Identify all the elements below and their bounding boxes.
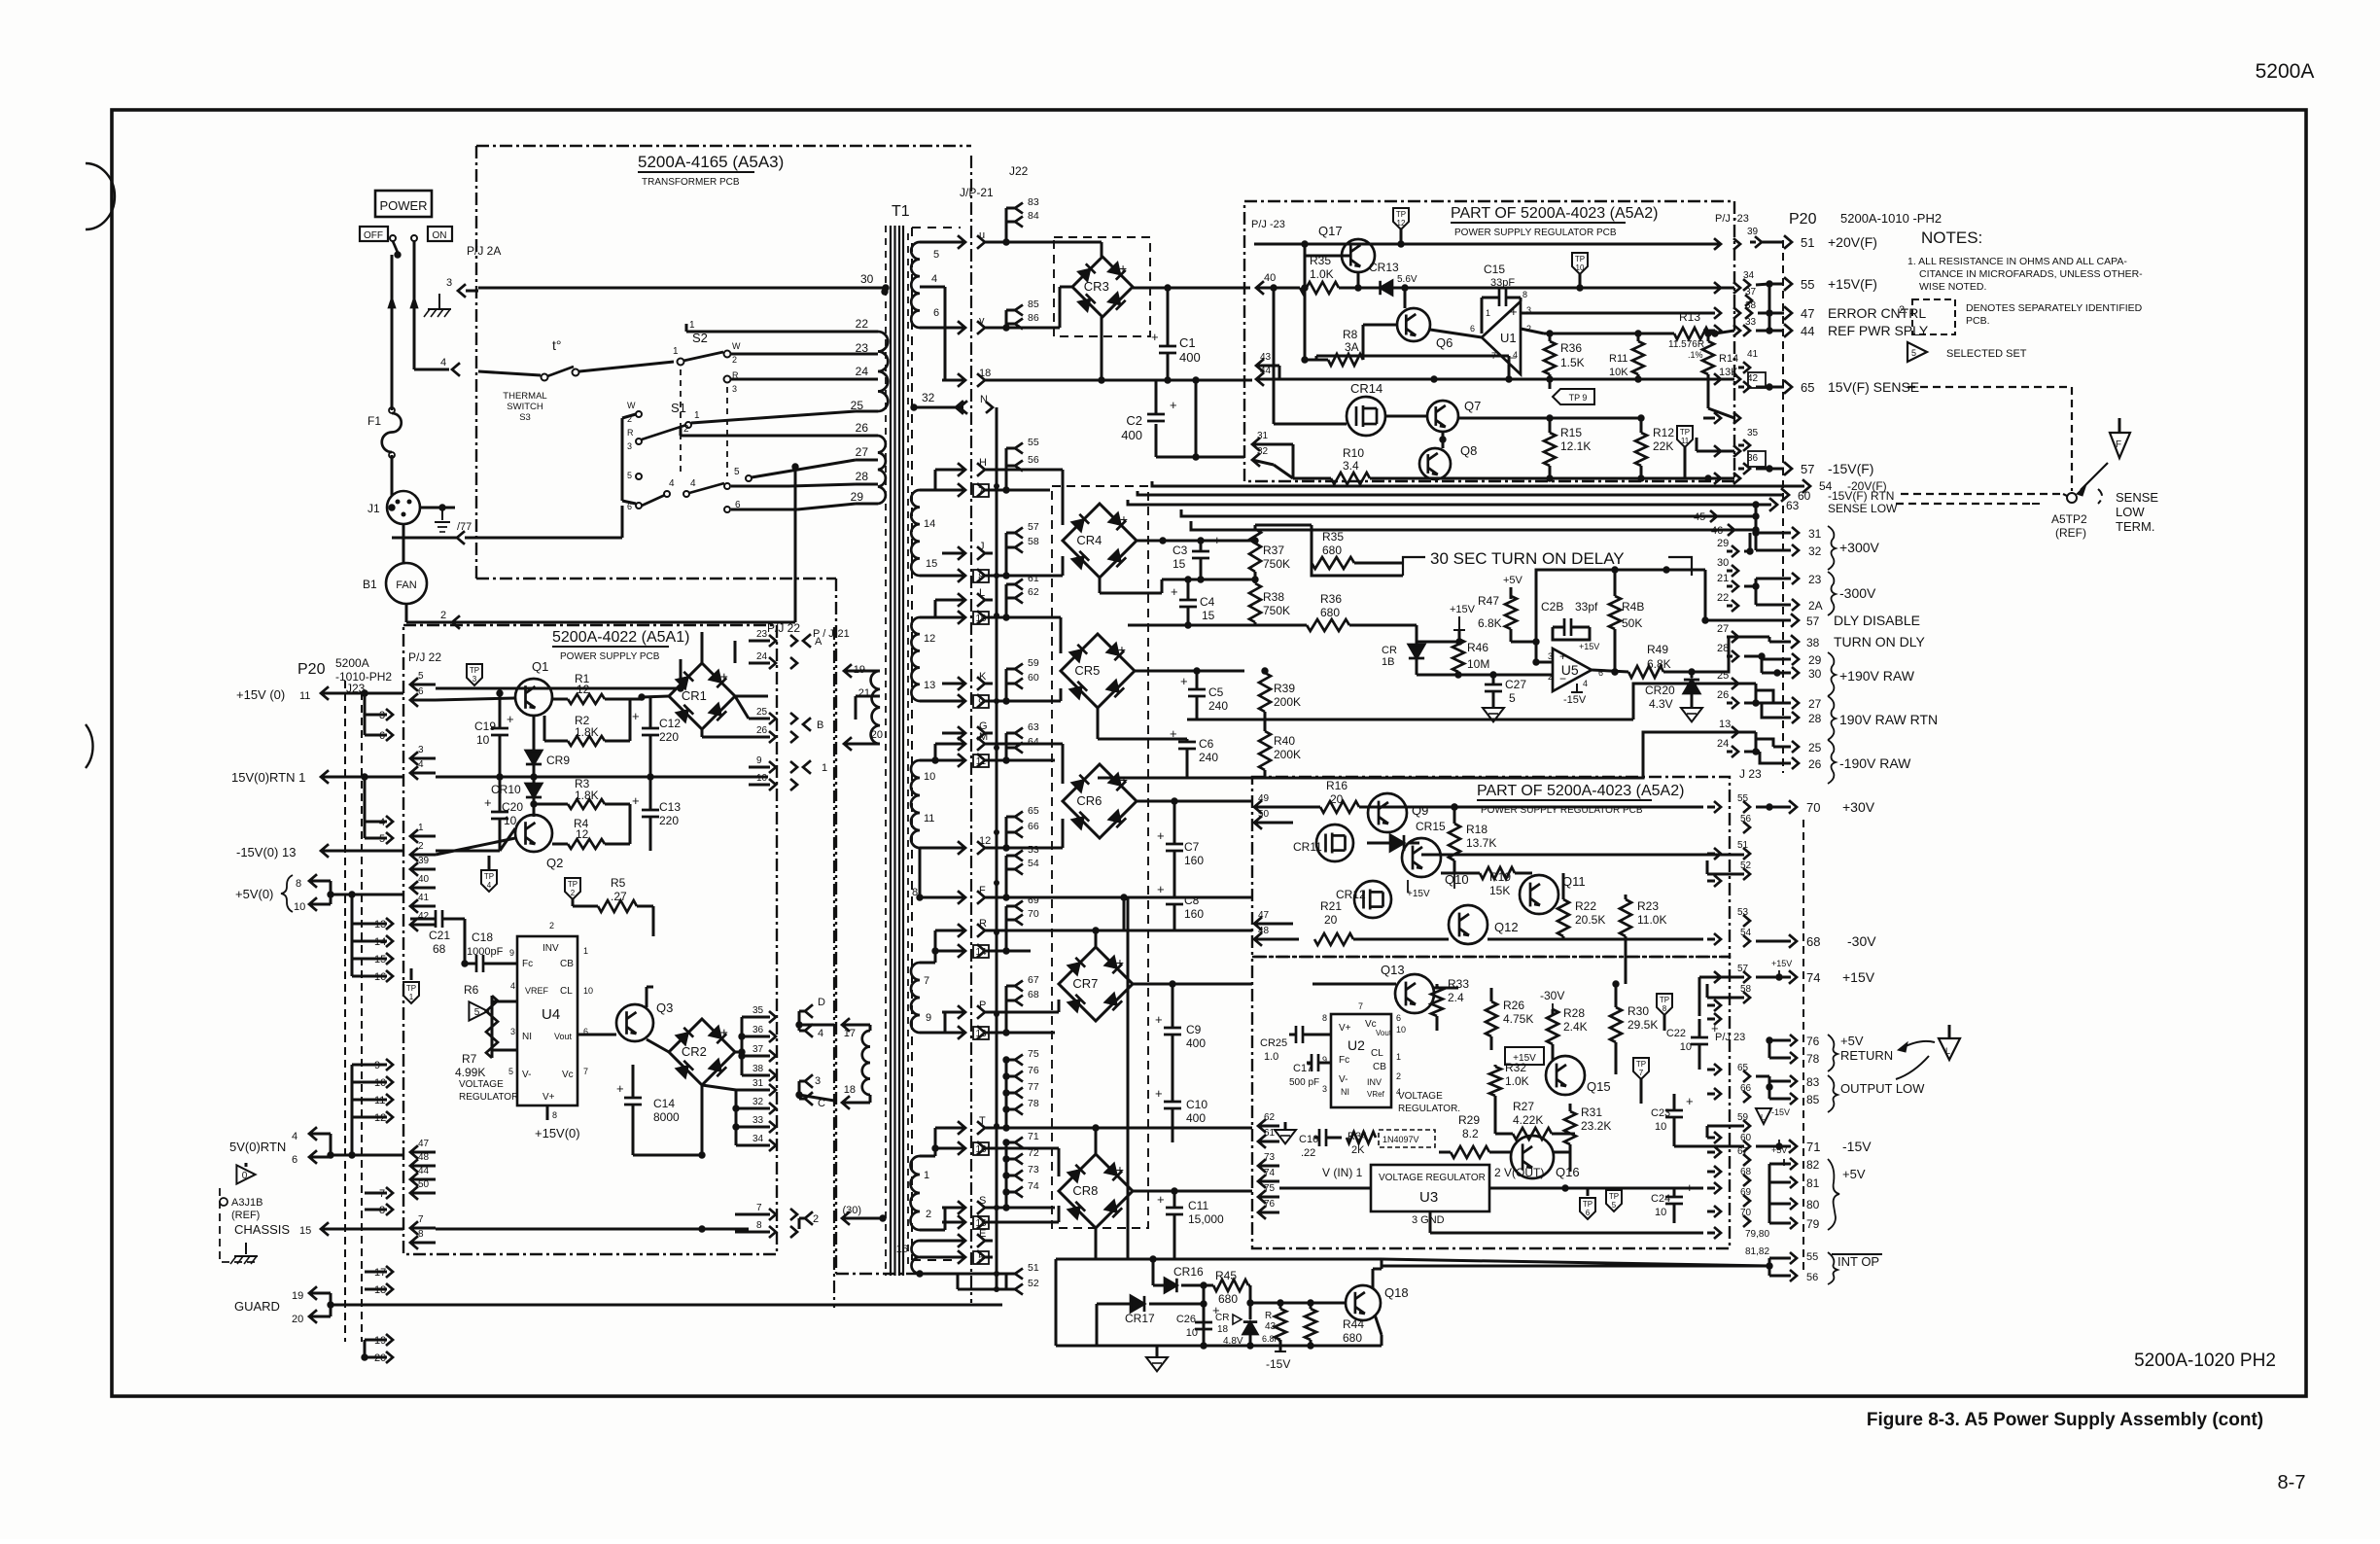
svg-text:73: 73 — [1028, 1164, 1039, 1176]
svg-text:85: 85 — [1806, 1093, 1820, 1106]
svg-text:+: + — [1118, 642, 1126, 657]
svg-text:26: 26 — [756, 725, 768, 736]
svg-text:Figure 8-3. A5 Power Supply As: Figure 8-3. A5 Power Supply Assembly (co… — [1867, 1410, 2263, 1430]
svg-text:U3: U3 — [1419, 1189, 1438, 1206]
svg-text:R29: R29 — [1458, 1113, 1480, 1127]
svg-text:R8: R8 — [1343, 328, 1358, 341]
svg-text:51: 51 — [1028, 1262, 1039, 1274]
svg-text:40: 40 — [418, 874, 430, 885]
bundle stair wires — [1152, 481, 1176, 486]
wire on-pole to connector 4 — [414, 368, 449, 371]
arrow up off wire — [388, 297, 396, 308]
svg-text:F1: F1 — [367, 414, 381, 428]
svg-text:+15V: +15V — [1771, 959, 1792, 968]
connector N — [942, 406, 963, 409]
capacitor C10 — [1164, 1101, 1181, 1104]
wire node column — [1203, 1285, 1206, 1346]
connector 9 — [942, 700, 963, 703]
svg-text:L: L — [979, 587, 985, 599]
svg-text:84: 84 — [1028, 210, 1039, 222]
svg-text:R: R — [1265, 1311, 1272, 1321]
U2 regulator box — [1331, 1014, 1391, 1107]
wire to tap 28 — [731, 485, 789, 488]
svg-text:Vout: Vout — [1376, 1029, 1392, 1037]
capacitor C23 — [1665, 1109, 1683, 1112]
svg-text:30: 30 — [1808, 667, 1822, 681]
svg-text:NI: NI — [1341, 1087, 1349, 1097]
svg-text:47: 47 — [418, 1139, 430, 1149]
bridge CR7 — [1059, 947, 1133, 1021]
svg-text:11: 11 — [976, 756, 987, 767]
svg-text:9: 9 — [926, 1012, 931, 1024]
U4 voltage regulator box — [517, 936, 577, 1105]
svg-text:+: + — [1120, 511, 1128, 527]
diode CR10 — [526, 784, 542, 797]
svg-text:4.75K: 4.75K — [1503, 1012, 1533, 1026]
svg-text:2: 2 — [440, 610, 446, 621]
TP7 testpoint — [1633, 1058, 1649, 1079]
ground symbol near connector 3 — [438, 294, 440, 309]
svg-text:4: 4 — [1583, 679, 1588, 688]
svg-text:SENSE LOW: SENSE LOW — [1828, 502, 1898, 515]
svg-text:8.2: 8.2 — [1462, 1127, 1479, 1140]
svg-text:3: 3 — [1322, 1084, 1327, 1094]
svg-text:+5V: +5V — [1771, 1145, 1787, 1155]
svg-text:THERMAL: THERMAL — [503, 391, 546, 402]
svg-text:3: 3 — [1548, 651, 1553, 661]
svg-text:83: 83 — [1806, 1075, 1820, 1089]
svg-text:+: + — [1116, 1162, 1124, 1177]
svg-text:13.7K: 13.7K — [1466, 836, 1496, 850]
svg-text:DLY DISABLE: DLY DISABLE — [1834, 613, 1920, 628]
svg-text:D: D — [818, 997, 825, 1008]
mech link dashes S1-S2 — [680, 369, 682, 476]
svg-text:11.576R: 11.576R — [1668, 339, 1704, 350]
svg-text:Q15: Q15 — [1587, 1079, 1611, 1094]
svg-text:8000: 8000 — [653, 1110, 680, 1124]
svg-text:79,80: 79,80 — [1745, 1229, 1769, 1240]
output 63 SENSE LOW — [1769, 498, 1777, 511]
svg-text:9: 9 — [978, 697, 984, 708]
svg-text:3: 3 — [627, 441, 632, 451]
svg-text:13: 13 — [924, 680, 935, 691]
svg-text:11: 11 — [299, 690, 310, 702]
svg-text:27: 27 — [1717, 623, 1729, 635]
svg-text:6: 6 — [292, 1154, 297, 1166]
svg-text:R36: R36 — [1320, 592, 1342, 606]
svg-text:3: 3 — [446, 277, 452, 289]
svg-text:53: 53 — [1028, 844, 1039, 856]
svg-text:1: 1 — [583, 946, 588, 956]
svg-text:V-: V- — [522, 1070, 531, 1080]
svg-text:C26: C26 — [1176, 1314, 1196, 1325]
svg-text:+: + — [1171, 584, 1178, 599]
svg-text:CR15: CR15 — [1416, 820, 1446, 833]
transistor Q3 — [616, 1004, 653, 1041]
wire DLY to edge — [1705, 619, 1713, 622]
svg-text:CR10: CR10 — [491, 783, 521, 796]
svg-text:B: B — [817, 719, 823, 731]
svg-text:4: 4 — [669, 478, 675, 489]
svg-text:14: 14 — [924, 518, 935, 530]
TP9 testpoint — [1553, 389, 1594, 404]
svg-text:V-: V- — [1339, 1074, 1347, 1085]
svg-text:-15V: -15V — [1563, 694, 1587, 706]
svg-text:8: 8 — [296, 878, 301, 890]
capacitor C6 — [1178, 741, 1196, 744]
svg-text:27: 27 — [856, 445, 869, 459]
svg-text:12.1K: 12.1K — [1560, 439, 1591, 453]
svg-text:12: 12 — [577, 683, 590, 696]
svg-text:1: 1 — [1396, 1052, 1401, 1062]
svg-text:1: 1 — [409, 993, 414, 1001]
svg-text:CR8: CR8 — [1072, 1183, 1098, 1198]
svg-text:23.2K: 23.2K — [1581, 1119, 1611, 1133]
svg-text:CR14: CR14 — [1350, 381, 1382, 396]
svg-text:GUARD: GUARD — [234, 1299, 280, 1314]
svg-text:2: 2 — [418, 841, 424, 852]
svg-text:+300V: +300V — [1839, 540, 1880, 555]
svg-text:8: 8 — [1662, 1004, 1667, 1013]
svg-text:TP: TP — [568, 880, 577, 889]
svg-text:R15: R15 — [1560, 426, 1582, 439]
wire int op to outputs — [1382, 1259, 1769, 1266]
svg-text:(REF): (REF) — [231, 1210, 260, 1221]
svg-text:50K: 50K — [1622, 616, 1642, 630]
svg-text:33pF: 33pF — [1490, 277, 1515, 289]
svg-text:5.6V: 5.6V — [1397, 274, 1417, 285]
svg-text:32: 32 — [1808, 544, 1822, 558]
svg-text:C7: C7 — [1184, 840, 1200, 854]
svg-text:+: + — [1155, 1086, 1163, 1101]
svg-text:R: R — [627, 428, 634, 438]
svg-text:41: 41 — [1747, 349, 1759, 360]
svg-text:+15V (0): +15V (0) — [236, 687, 285, 702]
bridge CR8 — [1059, 1154, 1133, 1228]
output 60 -15V(F) RTN — [1781, 488, 1789, 502]
svg-text:3: 3 — [472, 675, 477, 684]
border frame — [112, 110, 2306, 1396]
svg-text:P/J 23: P/J 23 — [1715, 1032, 1745, 1043]
capacitor C13 — [642, 809, 659, 812]
svg-text:Q17: Q17 — [1318, 224, 1343, 238]
svg-text:28: 28 — [1808, 712, 1822, 725]
svg-text:P/J 2A: P/J 2A — [467, 244, 501, 258]
svg-text:10K: 10K — [1609, 367, 1628, 378]
bridge CR3 — [1072, 257, 1133, 317]
svg-text:240: 240 — [1208, 699, 1228, 713]
feedback node wire — [1544, 333, 1674, 335]
wire thermal to S2 — [579, 362, 674, 371]
svg-text:U1: U1 — [1500, 331, 1517, 345]
svg-text:4: 4 — [690, 478, 696, 489]
svg-text:C22: C22 — [1666, 1028, 1686, 1039]
capacitor C20 — [491, 811, 508, 814]
output 27/28 190V RAW RTN — [1744, 683, 1756, 685]
delay box top wire — [1536, 570, 1666, 642]
svg-text:68: 68 — [1028, 989, 1039, 1000]
CR3 bottom corner wire — [1101, 317, 1103, 380]
small gnd triangle outputs — [1756, 1108, 1771, 1124]
svg-text:86: 86 — [1028, 312, 1039, 324]
capacitor C4 — [1179, 599, 1197, 602]
transistor Q12 — [1449, 905, 1487, 944]
svg-text:10: 10 — [504, 814, 517, 827]
svg-text:-15V: -15V — [1266, 1357, 1290, 1371]
bridge CR4 — [1063, 504, 1137, 578]
svg-text:20: 20 — [871, 729, 883, 741]
svg-text:59: 59 — [1028, 657, 1039, 669]
svg-text:C16: C16 — [1299, 1134, 1318, 1145]
svg-text:1: 1 — [694, 410, 700, 421]
selected set triangle 0 — [236, 1165, 255, 1183]
svg-text:Q18: Q18 — [1384, 1285, 1409, 1300]
capacitor C7 — [1166, 843, 1183, 846]
svg-text:P/J 22: P/J 22 — [408, 650, 441, 664]
svg-text:CB: CB — [1373, 1062, 1386, 1072]
connector M — [942, 743, 963, 746]
TP8 testpoint — [1657, 994, 1672, 1015]
svg-text:NOTES:: NOTES: — [1921, 228, 1982, 247]
svg-text:20.5K: 20.5K — [1575, 913, 1605, 927]
svg-text:680: 680 — [1322, 544, 1342, 557]
svg-text:1: 1 — [689, 320, 695, 331]
svg-text:CR7: CR7 — [1072, 976, 1098, 991]
svg-text:TP: TP — [1575, 255, 1585, 263]
svg-text:2: 2 — [732, 355, 737, 365]
connector 11 — [942, 759, 963, 762]
minus 15V bottom — [1275, 1351, 1286, 1352]
svg-text:DENOTES SEPARATELY IDENTIFIED: DENOTES SEPARATELY IDENTIFIED — [1966, 302, 2143, 314]
svg-text:18: 18 — [844, 1084, 856, 1096]
CR3 dashed box — [1054, 237, 1150, 336]
wire J1 bottom to row1 — [392, 537, 457, 540]
svg-text:TRANSFORMER PCB: TRANSFORMER PCB — [642, 177, 740, 188]
TP11 testpoint — [1677, 426, 1693, 447]
svg-text:R47: R47 — [1478, 594, 1499, 608]
svg-text:29: 29 — [851, 490, 864, 504]
capacitor C8 — [1166, 896, 1183, 899]
J22 pins 65/66 — [1015, 812, 1023, 823]
svg-text:29.5K: 29.5K — [1627, 1018, 1658, 1032]
secondary winding 12-13 — [911, 617, 920, 701]
svg-text:A: A — [815, 636, 822, 648]
int op wire — [1382, 1265, 1769, 1268]
svg-text:2.: 2. — [1899, 304, 1907, 316]
svg-text:6: 6 — [1586, 1209, 1591, 1217]
chassis ground symbol — [245, 1243, 247, 1254]
transistor Q15 — [1546, 1056, 1585, 1095]
svg-text:680: 680 — [1320, 606, 1340, 619]
svg-text:14: 14 — [975, 947, 987, 958]
output 25/26 -190V RAW — [1744, 731, 1756, 734]
svg-text:R49: R49 — [1647, 643, 1668, 656]
wire R35b to delay left — [1400, 562, 1403, 565]
svg-text:C21: C21 — [429, 929, 450, 942]
svg-text:50: 50 — [418, 1179, 430, 1190]
CR5 wires — [992, 616, 1061, 619]
TP6 testpoint — [1580, 1198, 1595, 1219]
svg-text:1: 1 — [418, 823, 424, 833]
svg-text:10M: 10M — [1467, 657, 1489, 671]
svg-text:200K: 200K — [1274, 748, 1301, 761]
svg-text:+: + — [720, 669, 728, 684]
svg-text:3: 3 — [510, 1027, 515, 1036]
svg-text:2.4: 2.4 — [1448, 991, 1464, 1004]
svg-text:C23: C23 — [1651, 1107, 1670, 1119]
svg-text:1.5K: 1.5K — [1560, 356, 1585, 369]
J1 ground wire — [420, 507, 455, 509]
svg-text:400: 400 — [1186, 1111, 1206, 1125]
svg-text:-300V: -300V — [1839, 585, 1876, 601]
J22 pins 69/70 — [1015, 901, 1023, 912]
svg-text:R14: R14 — [1719, 353, 1738, 365]
svg-text:POWER SUPPLY PCB: POWER SUPPLY PCB — [560, 651, 660, 662]
output 23/24 -300V — [1744, 585, 1756, 588]
svg-text:CR1: CR1 — [682, 688, 707, 703]
svg-text:Fc: Fc — [1339, 1055, 1349, 1066]
svg-text:23: 23 — [1808, 573, 1822, 586]
svg-text:200K: 200K — [1274, 695, 1301, 709]
svg-text:v: v — [979, 315, 985, 327]
svg-text:CR: CR — [1382, 645, 1397, 656]
wire F row to bottom box — [1123, 897, 1126, 930]
svg-text:ON: ON — [433, 230, 447, 241]
svg-text:Q13: Q13 — [1381, 963, 1405, 977]
svg-text:63: 63 — [1786, 499, 1800, 512]
svg-text:PCB.: PCB. — [1966, 315, 1990, 327]
svg-text:10: 10 — [1396, 1025, 1406, 1035]
svg-text:POWER: POWER — [379, 198, 427, 213]
J22 pins 53/54 — [1015, 851, 1023, 861]
base wire Q18 — [1250, 1302, 1346, 1305]
svg-text:−: − — [1559, 672, 1566, 685]
Q18 emitter wire — [1375, 1315, 1382, 1335]
svg-text:5: 5 — [474, 1007, 480, 1018]
wire off-pole down — [391, 255, 394, 408]
svg-text:R: R — [979, 918, 987, 930]
svg-text:28: 28 — [856, 470, 869, 483]
svg-text:83: 83 — [1028, 196, 1039, 208]
svg-text:8: 8 — [552, 1110, 557, 1120]
svg-text:13: 13 — [1719, 719, 1731, 730]
svg-text:11.0K: 11.0K — [1637, 913, 1666, 927]
output 57 DLY DISABLE — [1711, 619, 1791, 622]
svg-text:10: 10 — [1186, 1327, 1198, 1339]
transistor Q6 — [1397, 308, 1430, 341]
svg-text:7: 7 — [978, 486, 984, 497]
T bus wire — [992, 1127, 1252, 1130]
TP5 testpoint — [1606, 1190, 1622, 1211]
svg-text:+: + — [1213, 533, 1221, 547]
svg-text:J 23: J 23 — [1739, 767, 1762, 781]
connector 1 row — [457, 531, 465, 544]
svg-text:190V RAW RTN: 190V RAW RTN — [1839, 712, 1938, 727]
15V RTN row — [436, 776, 768, 779]
connector S — [942, 1207, 963, 1210]
svg-text:5: 5 — [1509, 691, 1516, 705]
J23 dashed cable line — [344, 681, 346, 1342]
svg-text:24: 24 — [1717, 738, 1729, 750]
svg-text:31: 31 — [752, 1078, 764, 1089]
svg-text:C2: C2 — [1126, 413, 1142, 428]
svg-text:Vout: Vout — [554, 1032, 573, 1041]
svg-text:15: 15 — [299, 1225, 311, 1237]
svg-text:V (IN) 1: V (IN) 1 — [1322, 1166, 1363, 1179]
svg-text:+: + — [720, 1025, 728, 1040]
connector 8 — [942, 575, 963, 578]
svg-text:P/J -23: P/J -23 — [1251, 219, 1285, 230]
svg-text:8: 8 — [978, 572, 984, 582]
connector v — [942, 327, 963, 330]
wire CR4 plus run — [1234, 540, 1255, 543]
output 55 +15V(F) — [1769, 283, 1784, 286]
output 44 REF PWR SPLY — [1769, 330, 1784, 333]
primary winding taps 26-29 — [878, 436, 886, 504]
svg-text:5V(0)RTN: 5V(0)RTN — [229, 1140, 286, 1154]
svg-text:R37: R37 — [1263, 544, 1284, 557]
connector 13 — [942, 1032, 963, 1035]
svg-text:R7: R7 — [462, 1052, 477, 1066]
svg-text:+: + — [1151, 330, 1159, 344]
svg-text:PART OF 5200A-4023 (A5A2): PART OF 5200A-4023 (A5A2) — [1451, 205, 1658, 222]
svg-text:63: 63 — [1028, 721, 1039, 733]
svg-text:C19: C19 — [474, 719, 496, 733]
int op rail — [1056, 1258, 1382, 1261]
delay output wire — [1692, 637, 1744, 672]
svg-text:4: 4 — [418, 759, 424, 770]
capacitor C22 — [1691, 1036, 1708, 1039]
svg-text:1: 1 — [822, 762, 827, 774]
svg-text:25: 25 — [756, 707, 768, 718]
svg-text:74: 74 — [1028, 1180, 1039, 1192]
svg-text:Q7: Q7 — [1464, 399, 1481, 413]
svg-text:81,82: 81,82 — [1745, 1246, 1769, 1257]
svg-text:22: 22 — [856, 317, 869, 331]
svg-text:10: 10 — [294, 901, 305, 913]
tap 32 wire — [910, 404, 917, 410]
svg-text:15V(F) SENSE: 15V(F) SENSE — [1828, 379, 1919, 395]
svg-text:33pf: 33pf — [1575, 600, 1598, 614]
svg-text:P20: P20 — [297, 661, 326, 678]
capacitor C1 — [1159, 345, 1176, 348]
svg-text:3.4: 3.4 — [1343, 459, 1359, 473]
svg-text:400: 400 — [1179, 350, 1201, 365]
transistor Q11 — [1520, 875, 1558, 914]
svg-text:+: + — [1119, 261, 1127, 276]
svg-text:TP: TP — [1680, 428, 1690, 437]
svg-text:CHASSIS: CHASSIS — [234, 1222, 290, 1237]
svg-text:+: + — [507, 712, 514, 726]
wire S2-R to tap 24 — [731, 378, 856, 381]
wire Q6 base — [1363, 324, 1397, 327]
svg-text:R32: R32 — [1505, 1061, 1526, 1074]
J22 pins 51/52 — [1015, 1269, 1023, 1280]
+15V boxed — [1505, 1047, 1544, 1065]
svg-text:F: F — [979, 885, 986, 896]
wire bundle left of delay — [1312, 563, 1403, 576]
svg-text:1.0: 1.0 — [1264, 1051, 1278, 1063]
svg-text:FAN: FAN — [396, 579, 416, 591]
svg-text:78: 78 — [1028, 1098, 1039, 1109]
svg-text:-30V: -30V — [1540, 989, 1564, 1002]
svg-text:CR25: CR25 — [1260, 1037, 1287, 1049]
CR5 rails to right — [1265, 719, 1633, 721]
svg-text:R16: R16 — [1326, 779, 1347, 792]
op amp U5 — [1553, 649, 1592, 691]
wire q16 rail — [1554, 1151, 1570, 1154]
svg-text:160: 160 — [1184, 854, 1204, 867]
